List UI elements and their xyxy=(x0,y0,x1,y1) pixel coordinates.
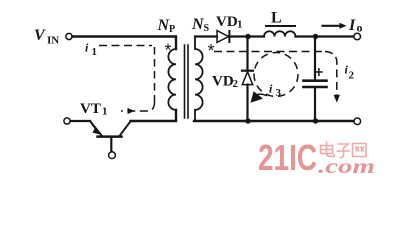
svg-text:VD: VD xyxy=(216,14,238,30)
svg-text:o: o xyxy=(357,21,363,35)
svg-text:1: 1 xyxy=(92,46,98,58)
svg-text:1: 1 xyxy=(237,19,243,31)
svg-text:2: 2 xyxy=(233,78,239,90)
svg-text:2: 2 xyxy=(349,70,355,82)
svg-text:IN: IN xyxy=(47,35,59,47)
svg-text:P: P xyxy=(169,24,175,35)
svg-text:*: * xyxy=(165,41,172,61)
svg-text:*: * xyxy=(208,41,215,61)
svg-text:VD: VD xyxy=(212,74,234,90)
svg-text:.com: .com xyxy=(318,154,375,178)
svg-text:V: V xyxy=(34,27,46,44)
svg-text:L: L xyxy=(271,10,282,27)
svg-text:1: 1 xyxy=(102,106,108,118)
svg-text:S: S xyxy=(204,23,210,34)
svg-text:21IC: 21IC xyxy=(258,137,317,178)
svg-text:I: I xyxy=(348,17,356,34)
svg-text:3: 3 xyxy=(276,87,282,99)
svg-text:VT: VT xyxy=(80,101,101,117)
